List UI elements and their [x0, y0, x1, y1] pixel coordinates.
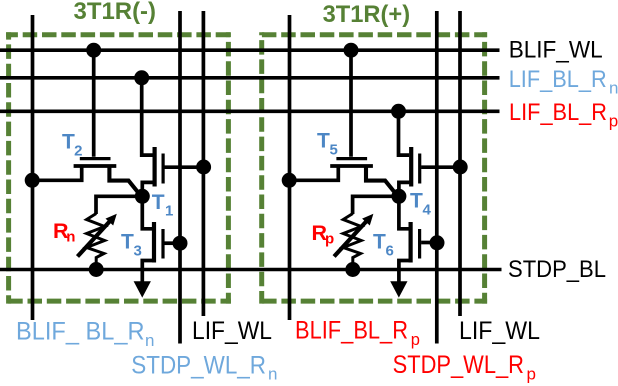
svg-text:6: 6	[386, 242, 394, 259]
svg-text:p: p	[527, 364, 536, 383]
svg-text:BLIF_WL: BLIF_WL	[509, 37, 603, 64]
svg-text:5: 5	[330, 141, 338, 158]
svg-text:n: n	[66, 229, 75, 246]
svg-text:4: 4	[423, 201, 432, 218]
svg-text:3T1R(+): 3T1R(+)	[323, 1, 411, 28]
svg-text:n: n	[145, 331, 154, 350]
svg-text:3T1R(-): 3T1R(-)	[74, 0, 157, 25]
svg-text:T: T	[152, 191, 165, 214]
svg-text:T: T	[62, 130, 75, 153]
svg-text:T: T	[410, 190, 423, 213]
svg-text:LIF_WL: LIF_WL	[192, 317, 272, 345]
svg-text:2: 2	[74, 142, 82, 159]
svg-text:n: n	[609, 79, 618, 98]
svg-text:STDP_WL_R: STDP_WL_R	[393, 351, 524, 379]
svg-text:LIF_WL: LIF_WL	[459, 317, 540, 345]
svg-text:n: n	[268, 365, 277, 384]
svg-text:BLIF_BL_R: BLIF_BL_R	[295, 317, 408, 345]
svg-text:LIF_BL_R: LIF_BL_R	[509, 66, 607, 93]
svg-text:STDP_WL_R: STDP_WL_R	[131, 351, 266, 379]
svg-text:T: T	[317, 129, 330, 152]
svg-text:T: T	[373, 230, 386, 253]
svg-text:T: T	[121, 230, 134, 253]
svg-text:3: 3	[134, 242, 142, 259]
svg-text:p: p	[411, 331, 420, 349]
svg-text:1: 1	[165, 202, 173, 219]
svg-text:p: p	[325, 231, 334, 248]
svg-text:p: p	[609, 112, 618, 131]
svg-text:LIF_BL_R: LIF_BL_R	[509, 99, 607, 126]
svg-text:BLIF_ BL_R: BLIF_ BL_R	[16, 317, 145, 345]
svg-text:STDP_BL: STDP_BL	[508, 256, 606, 283]
